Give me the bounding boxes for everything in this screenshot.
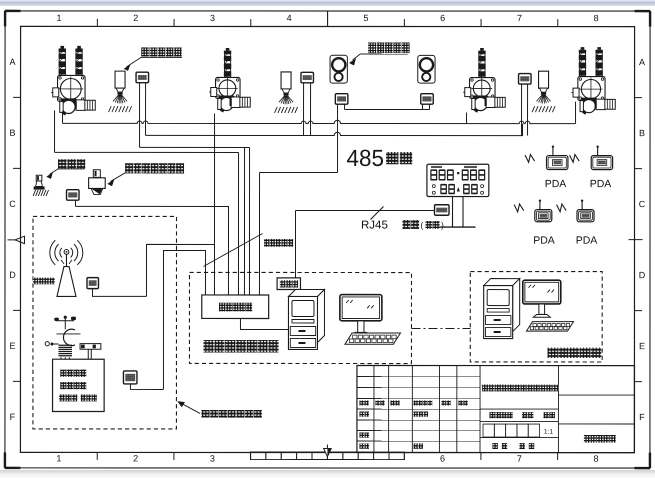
radio wave mark 4	[557, 204, 567, 212]
ground hatch under wave meter	[33, 190, 48, 196]
data module box for weather station	[123, 371, 137, 384]
riser x146 antenna bridge to M2 drop wire	[146, 244, 214, 296]
wire drop to serial server x245	[237, 152, 239, 294]
workstation monitor (wharf front)	[340, 295, 382, 336]
wire machine M3 drop	[466, 113, 468, 124]
column tick top	[480, 19, 482, 27]
display pole base	[440, 226, 476, 228]
svg-text:): )	[441, 220, 444, 230]
column tick top	[403, 19, 405, 27]
data module box near machine M3	[519, 74, 532, 85]
svg-text:5: 5	[363, 13, 368, 23]
label central-control-room	[547, 348, 601, 358]
svg-text:D: D	[639, 270, 646, 280]
label laser-sensor	[368, 43, 409, 54]
svg-text:F: F	[639, 412, 645, 422]
laser sensor 1	[330, 55, 347, 83]
radio wave mark 3	[514, 204, 524, 212]
display board pole	[452, 197, 454, 227]
weather station text line1 wind-speed-direction	[60, 370, 86, 377]
svg-text:B: B	[639, 128, 645, 138]
loading arm unit M4 (double tower)	[571, 47, 615, 113]
striped pedestal of anemometer	[58, 345, 72, 360]
wire wave module drop	[75, 200, 77, 206]
dash-dot link between stations	[411, 328, 470, 330]
router box	[277, 278, 300, 290]
column tick top	[96, 19, 98, 27]
wire module2 legs	[303, 83, 305, 136]
svg-text:1: 1	[56, 453, 61, 463]
dashed enclosure central-control-room roof	[33, 216, 177, 429]
thick corner marks of outer border	[5, 10, 21, 12]
svg-text:(: (	[421, 220, 424, 230]
data module box beside antenna	[87, 278, 99, 289]
dashed enclosure wharf front operation station	[189, 272, 411, 363]
wire sensor rail y206	[75, 206, 228, 294]
svg-text:PDA: PDA	[533, 235, 555, 247]
laser sensor 2	[418, 55, 435, 83]
485 bus rail A y123	[63, 120, 576, 123]
leader line for oil spill monitor label	[141, 56, 182, 58]
wire drop x251	[248, 147, 250, 294]
weather station text line2 temperature-humidity	[60, 382, 86, 389]
title block design/standardisation labels	[359, 412, 369, 417]
svg-text:PDA: PDA	[576, 235, 598, 247]
row tick left	[13, 380, 20, 382]
label serial-port-server	[219, 303, 252, 312]
LED display board	[427, 164, 489, 196]
label wharf-front-operation-station	[203, 340, 278, 353]
label wave-meter	[58, 159, 85, 169]
dashed enclosure central control room	[470, 272, 602, 362]
leader line for laser sensor label	[360, 53, 408, 55]
svg-text:7: 7	[517, 13, 522, 23]
stage-mark quality scale labels	[489, 412, 512, 418]
label router	[280, 280, 298, 287]
rain gauge instrument on weather box	[80, 344, 101, 360]
PDA handheld 4	[577, 199, 594, 221]
centre tick top	[327, 11, 329, 26]
column tick bottom	[96, 452, 98, 459]
sheet count row	[492, 443, 507, 449]
svg-text:PDA: PDA	[545, 178, 567, 190]
label current-speed-direction-sensor	[125, 163, 184, 173]
wire machine M1 left drop	[54, 110, 56, 152]
column tick bottom	[173, 452, 175, 460]
svg-text:4: 4	[287, 13, 292, 23]
wire laser module1 legs	[337, 104, 339, 172]
label oil-spill-monitor (top)	[141, 47, 181, 56]
current speed/direction sensor device	[89, 170, 106, 195]
PDA handheld 1	[547, 145, 568, 169]
svg-text:F: F	[10, 412, 16, 422]
svg-text:2: 2	[133, 13, 138, 23]
svg-text:7: 7	[517, 454, 522, 464]
RJ45 wire horizontal	[296, 209, 435, 211]
485 bus rail B y134	[146, 123, 523, 135]
leader for wave meter label	[58, 168, 85, 170]
svg-text:A: A	[10, 57, 16, 67]
svg-text:8: 8	[594, 13, 599, 23]
wire module1 legs	[139, 83, 141, 148]
anemometer assembly on weather box	[45, 316, 80, 346]
svg-text:E: E	[9, 341, 15, 351]
weather station box	[53, 359, 105, 411]
row tick right	[635, 168, 643, 170]
bottom centre triangle marker	[326, 445, 328, 460]
column tick top	[173, 19, 175, 27]
svg-text:6: 6	[440, 13, 445, 23]
radio wave mark 2	[570, 154, 580, 162]
svg-text:B: B	[10, 128, 16, 138]
riser x163.5 weather bridge to serial server	[163, 250, 205, 389]
title block craft/approve labels	[359, 444, 369, 449]
column tick top	[557, 19, 559, 27]
radio wave mark 1	[525, 154, 535, 162]
weather station text line3 rainfall visibility	[59, 394, 77, 401]
svg-text:C: C	[639, 199, 646, 209]
wire machine M1 leg to rail A	[62, 111, 64, 123]
svg-text:1:1: 1:1	[544, 429, 553, 436]
svg-text:RJ45: RJ45	[361, 220, 388, 232]
wire machine M2 drop to serial server	[213, 113, 215, 294]
control room tower	[484, 279, 520, 339]
column tick bottom	[480, 453, 482, 461]
PDA handheld 3	[535, 199, 552, 221]
svg-text:A: A	[639, 57, 645, 67]
oil spill monitor nozzle 2	[275, 72, 298, 113]
row tick right	[635, 97, 643, 99]
column tick top	[250, 19, 252, 27]
svg-text:3: 3	[210, 13, 215, 23]
svg-text:1: 1	[56, 13, 61, 23]
svg-text:6: 6	[440, 454, 445, 464]
row tick right	[634, 310, 642, 312]
control room monitor	[523, 280, 561, 317]
column tick bottom	[250, 452, 252, 460]
right centre tick	[629, 239, 643, 241]
svg-text:D: D	[9, 270, 16, 280]
svg-text:3: 3	[210, 453, 215, 463]
wire drop x239	[243, 147, 245, 294]
svg-text:8: 8	[594, 454, 599, 464]
wire from laser bus down-left y170	[260, 171, 338, 173]
workstation keyboard (wharf front)	[345, 333, 401, 344]
svg-text:2: 2	[133, 453, 138, 463]
control room keyboard	[526, 322, 573, 332]
label central-control-room-roof	[201, 410, 261, 418]
label wireless-base-station	[33, 278, 55, 285]
loading arm unit M2 (single tower)	[209, 48, 250, 111]
wire laser module2 legs	[422, 104, 424, 109]
wireless base station antenna	[50, 240, 83, 296]
row tick left	[13, 96, 20, 98]
drawing title system-structure-diagram	[584, 435, 616, 443]
network module box at LED display	[435, 205, 450, 216]
svg-text:PDA: PDA	[590, 178, 612, 190]
data module box below laser sensor 2	[421, 94, 434, 105]
title block row labels (mark/count/zone/file/sign/date)	[359, 401, 368, 406]
leader diagonal for twisted pair cable label	[203, 233, 262, 266]
wire rail y152.5	[55, 151, 239, 153]
svg-text:C: C	[9, 199, 16, 209]
svg-text:485: 485	[347, 145, 385, 171]
RJ45 wire vertical to router	[294, 210, 296, 277]
serial port server box	[202, 295, 269, 319]
column tick bottom	[403, 453, 405, 461]
data module box near nozzle 2	[301, 72, 314, 83]
loading arm unit M3 (single tower)	[463, 48, 505, 111]
wire weather module to riser	[130, 384, 163, 389]
cable-type slash mark on RJ45 wire	[371, 207, 384, 220]
485 bus rail D y147	[140, 146, 250, 148]
title block table	[357, 366, 635, 453]
row tick left	[13, 167, 21, 169]
data module box below laser sensor 1	[335, 94, 348, 105]
wire antenna module to riser	[92, 289, 146, 297]
label twisted-shielded-cable	[264, 239, 293, 247]
project name text in title block	[482, 385, 559, 392]
laser rail y109.5	[345, 109, 430, 111]
graphic scale bar	[250, 452, 265, 460]
loading arm unit M1 (double tower)	[51, 46, 95, 114]
wire module M3-side legs	[521, 84, 523, 135]
workstation tower (wharf front)	[288, 289, 324, 349]
oil spill monitor nozzle 1	[109, 71, 132, 112]
row tick right	[634, 381, 642, 383]
leader for flow sensor label	[111, 173, 126, 182]
left centre arrow marker	[15, 236, 25, 243]
row tick left	[13, 309, 20, 311]
svg-text:E: E	[639, 341, 645, 351]
data module box near nozzle 1	[136, 72, 149, 83]
data module box for wave meter	[67, 190, 80, 201]
wire machine M4 drop	[575, 102, 577, 124]
wire serial server to workstation tower	[240, 318, 288, 329]
oil spill monitor nozzle 3	[532, 71, 555, 112]
column tick bottom	[557, 453, 559, 461]
title block checker label	[359, 433, 369, 438]
PDA handheld 2	[591, 145, 612, 169]
wire drop x257.5 to serial server	[258, 172, 260, 294]
wave meter device	[34, 175, 45, 189]
